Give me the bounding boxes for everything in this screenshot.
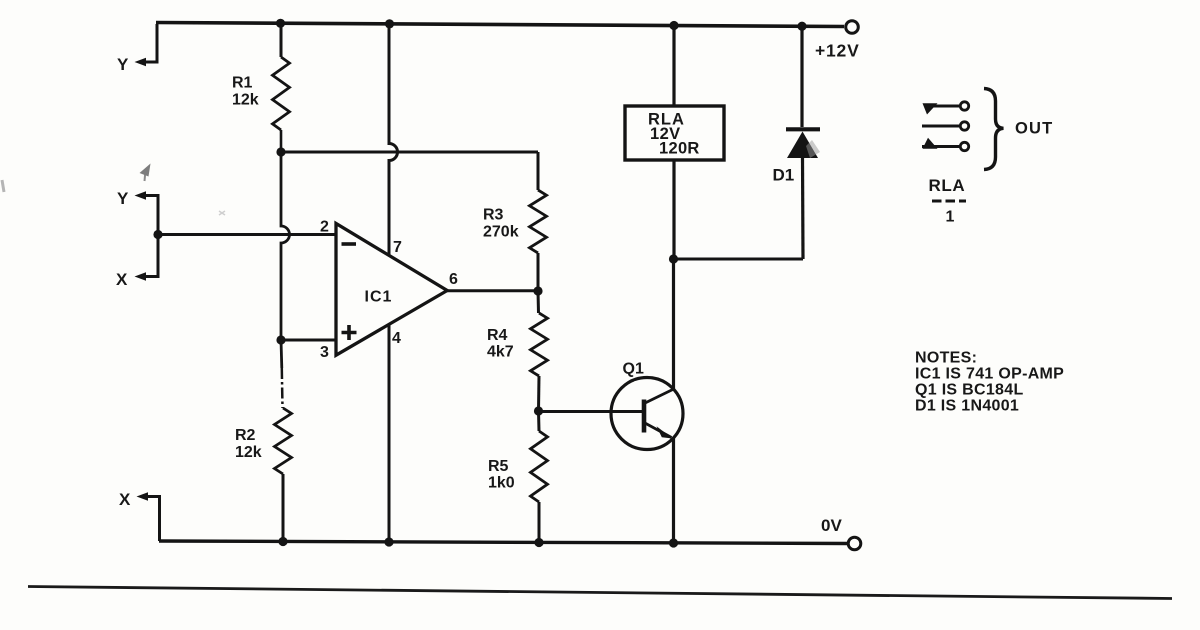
pin 4 label bbox=[392, 330, 401, 347]
svg-text:12k: 12k bbox=[232, 92, 259, 109]
node top rail / R1 bbox=[276, 19, 285, 28]
op-amp minus sign bbox=[342, 242, 357, 246]
brace OUT bbox=[984, 89, 1053, 170]
svg-text:R2: R2 bbox=[235, 427, 256, 444]
notes bbox=[915, 350, 1064, 415]
svg-text:4: 4 bbox=[392, 330, 401, 347]
wire pin3 input bbox=[281, 339, 336, 342]
wire emitter down to 0V rail bbox=[672, 438, 675, 543]
terminal X middle input bbox=[116, 235, 158, 290]
transistor Q1 bbox=[611, 361, 683, 450]
node bottom rail / R5 bbox=[534, 538, 543, 547]
svg-text:IC1 IS 741 OP-AMP: IC1 IS 741 OP-AMP bbox=[915, 366, 1064, 383]
wire bottom 0V rail bbox=[159, 541, 848, 544]
diode D1 bbox=[773, 26, 821, 259]
svg-text:4k7: 4k7 bbox=[487, 344, 514, 361]
node top rail / relay bbox=[669, 21, 678, 30]
pin 6 label bbox=[449, 271, 458, 288]
terminal 0V bbox=[821, 516, 861, 550]
op-amp plus sign bbox=[342, 325, 357, 340]
svg-text:Y: Y bbox=[117, 55, 129, 74]
node top rail / pin7 line bbox=[385, 19, 394, 28]
svg-text:270k: 270k bbox=[483, 224, 519, 241]
wire pin4 down to 0V rail bbox=[388, 324, 391, 542]
wire collector up to relay node bbox=[672, 259, 675, 389]
resistor R5 1k0 bbox=[488, 411, 548, 542]
wire R1 bottom down to pin3 node (hop over pin2 wire) bbox=[281, 152, 290, 340]
svg-text:X: X bbox=[116, 270, 128, 289]
pin 7 label bbox=[393, 239, 402, 256]
svg-text:3: 3 bbox=[320, 344, 329, 361]
svg-text:R3: R3 bbox=[483, 207, 504, 224]
relay contact common (middle) bbox=[922, 122, 969, 130]
svg-text:NOTES:: NOTES: bbox=[915, 350, 977, 367]
wire pin2 input bbox=[158, 233, 336, 236]
wire base to Q1 bbox=[539, 410, 645, 413]
pin 2 label bbox=[320, 219, 329, 236]
node bottom rail / pin4 bbox=[384, 537, 393, 546]
svg-text:0V: 0V bbox=[821, 516, 842, 535]
svg-text:12k: 12k bbox=[235, 444, 262, 461]
pin 3 label bbox=[320, 344, 329, 361]
svg-text:Y: Y bbox=[117, 189, 129, 208]
op-amp IC1 bbox=[336, 223, 447, 355]
svg-text:X: X bbox=[119, 490, 131, 509]
node top rail / D1 bbox=[797, 22, 806, 31]
bottom border rule bbox=[28, 587, 1172, 599]
svg-text:1: 1 bbox=[946, 209, 955, 226]
svg-text:OUT: OUT bbox=[1015, 120, 1053, 138]
node Y/X input junction bbox=[153, 230, 162, 239]
svg-text:IC1: IC1 bbox=[365, 289, 393, 306]
wire collector node to D1 bbox=[674, 258, 804, 261]
terminal Y lower input bbox=[117, 189, 158, 235]
relay coil RLA 12V 120R bbox=[625, 26, 724, 260]
resistor R3 270k bbox=[483, 152, 547, 291]
node inverting divider / pin3 bbox=[276, 335, 285, 344]
resistor R2 12k bbox=[235, 340, 292, 542]
node feedback junction bbox=[276, 147, 285, 156]
svg-text:Q1 IS BC184L: Q1 IS BC184L bbox=[915, 382, 1024, 399]
resistor R1 12k bbox=[232, 24, 290, 152]
svg-text:2: 2 bbox=[320, 219, 329, 236]
svg-text:R4: R4 bbox=[487, 327, 508, 344]
svg-text:+12V: +12V bbox=[815, 41, 860, 61]
node base junction R4/R5 bbox=[534, 406, 543, 415]
svg-text:6: 6 bbox=[449, 271, 458, 288]
wire feedback to R3 top bbox=[281, 151, 538, 154]
svg-text:7: 7 bbox=[393, 239, 402, 256]
svg-text:R5: R5 bbox=[488, 458, 509, 475]
node bottom rail / emitter bbox=[669, 538, 678, 547]
terminal +12V bbox=[815, 21, 860, 61]
scan artifact small gray arrow bbox=[140, 164, 151, 182]
relay contact NC (top) bbox=[923, 102, 969, 115]
node collector / relay / D1 bbox=[669, 254, 678, 263]
svg-text:R1: R1 bbox=[232, 75, 253, 92]
relay contact label RLA/1 bbox=[929, 176, 967, 226]
wire top +12V rail bbox=[156, 23, 844, 27]
terminal X lower input bbox=[119, 490, 160, 541]
svg-text:D1: D1 bbox=[773, 166, 795, 185]
resistor R4 4k7 bbox=[487, 291, 548, 411]
wire pin7 supply (hop over feedback wire) bbox=[389, 24, 398, 256]
terminal Y upper input bbox=[117, 24, 157, 74]
svg-text:120R: 120R bbox=[659, 140, 700, 158]
svg-text:Q1: Q1 bbox=[623, 361, 644, 378]
svg-text:1k0: 1k0 bbox=[488, 475, 515, 492]
node output / R3 / R4 bbox=[533, 286, 542, 295]
relay contact NO (bottom) bbox=[922, 138, 969, 151]
wire op-amp output pin6 bbox=[447, 289, 538, 292]
svg-text:D1 IS 1N4001: D1 IS 1N4001 bbox=[915, 398, 1019, 415]
node bottom rail / R2 bbox=[278, 537, 287, 546]
scan artifact specks bbox=[2, 140, 820, 215]
svg-text:RLA: RLA bbox=[929, 176, 966, 195]
